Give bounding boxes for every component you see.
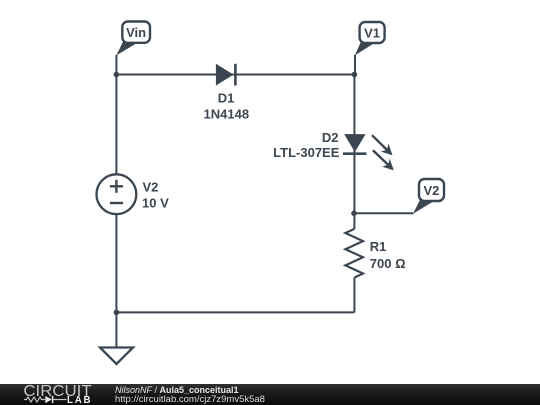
svg-text:LTL-307EE: LTL-307EE bbox=[273, 145, 340, 160]
svg-text:LAB: LAB bbox=[67, 395, 92, 405]
svg-text:10 V: 10 V bbox=[142, 196, 169, 211]
svg-text:V2: V2 bbox=[423, 183, 439, 198]
svg-text:D2: D2 bbox=[322, 130, 339, 145]
svg-text:700 Ω: 700 Ω bbox=[370, 256, 406, 271]
svg-text:1N4148: 1N4148 bbox=[204, 106, 250, 121]
svg-text:V2: V2 bbox=[143, 180, 159, 195]
svg-text:Vin: Vin bbox=[126, 25, 146, 40]
svg-text:R1: R1 bbox=[370, 239, 387, 254]
svg-text:V1: V1 bbox=[364, 25, 380, 40]
svg-text:D1: D1 bbox=[218, 91, 235, 106]
